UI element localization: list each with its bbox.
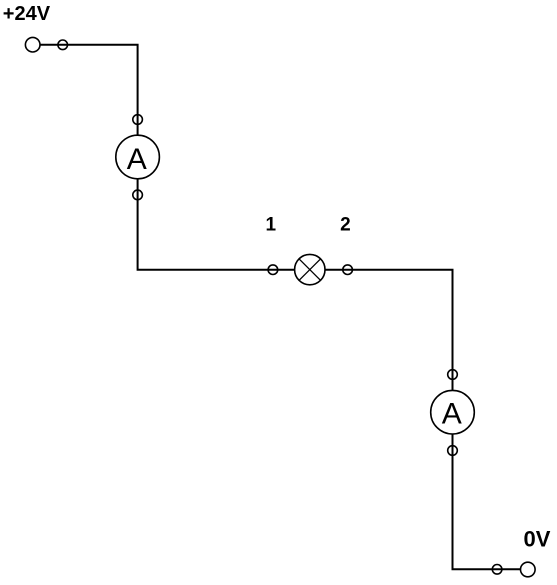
svg-text:0V: 0V: [524, 526, 551, 551]
svg-text:A: A: [442, 397, 462, 430]
svg-text:A: A: [127, 143, 147, 176]
svg-text:2: 2: [340, 214, 351, 235]
svg-text:+24V: +24V: [3, 3, 51, 25]
svg-text:1: 1: [266, 214, 277, 235]
